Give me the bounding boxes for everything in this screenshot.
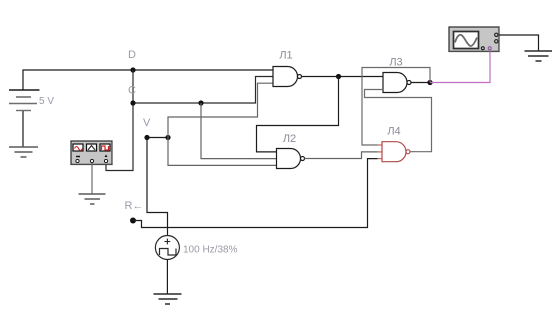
- NAND gate U3 (Л3, 2-input): [383, 73, 411, 93]
- svg-text:Л1: Л1: [279, 50, 292, 62]
- wire: battery+ to D line to gate L1 input 1: [22, 69, 273, 71]
- svg-text:R←: R←: [125, 200, 144, 212]
- node L3-out junction dot: [427, 80, 432, 85]
- NAND gate U4 (Л4, 3-input, selected red): [378, 142, 411, 162]
- wire: V node down to gate L2 input 3 (gray): [168, 138, 277, 166]
- svg-text:V: V: [143, 117, 151, 129]
- wire: R node to gate L4 input 3: [133, 159, 378, 228]
- battery V1 5V: [9, 70, 40, 147]
- svg-text:D: D: [128, 49, 136, 61]
- wire: C line: [133, 77, 273, 104]
- svg-text:C: C: [128, 85, 136, 97]
- node L1-out junction dot: [336, 74, 341, 79]
- wire: L1 output to L3 input 1: [302, 76, 384, 78]
- NAND gate U2 (Л2, 3-input): [277, 149, 305, 169]
- wire: L1 output feedback down to L2 input 1: [257, 77, 339, 152]
- wire: V node up and over to gate L1 input 3 (gray): [168, 83, 273, 137]
- wire: L4 output feedback to L3 input 2: [365, 90, 432, 152]
- svg-text:Л3: Л3: [389, 57, 402, 69]
- wire: C node to gate L2 input 2 (gray): [201, 103, 277, 159]
- node D junction dot: [130, 67, 135, 72]
- wire: function generator common to ground (gray): [91, 163, 93, 194]
- wire: V node segment: [147, 137, 168, 139]
- function generator XFG: [71, 141, 112, 165]
- wire: pulse source to ground: [166, 260, 168, 295]
- wire: L3 output feedback over to L4 input 1: [362, 68, 430, 146]
- node V junction dot 2: [165, 135, 170, 140]
- wire: L3 output: [411, 82, 430, 84]
- node V junction dot 1: [144, 135, 149, 140]
- node R terminal dot: [130, 218, 136, 224]
- pulse source 100Hz: [155, 236, 179, 260]
- ground (pulse source): [154, 294, 182, 304]
- wire: L2 output to L4 input 2 (gray): [305, 152, 378, 159]
- wire: D node down through C node to function generator + terminal: [106, 70, 133, 171]
- oscilloscope XSC: [449, 27, 499, 52]
- ground (function generator): [79, 194, 106, 204]
- svg-text:100 Hz/38%: 100 Hz/38%: [183, 245, 238, 256]
- NAND gate U1 (Л1, 3-input): [273, 67, 302, 87]
- svg-text:Л2: Л2: [283, 133, 296, 145]
- wire: V node to pulse source +: [147, 138, 168, 236]
- node C junction dot 2: [198, 100, 203, 105]
- ground (oscilloscope): [525, 51, 553, 61]
- wire: L3 output to oscilloscope input (magenta): [430, 52, 490, 83]
- ground (battery): [9, 147, 38, 157]
- svg-text:Л4: Л4: [387, 126, 400, 138]
- node C junction dot 1: [130, 100, 135, 105]
- svg-text:5 V: 5 V: [39, 96, 54, 107]
- wire: oscilloscope ground terminal to ground: [499, 35, 539, 51]
